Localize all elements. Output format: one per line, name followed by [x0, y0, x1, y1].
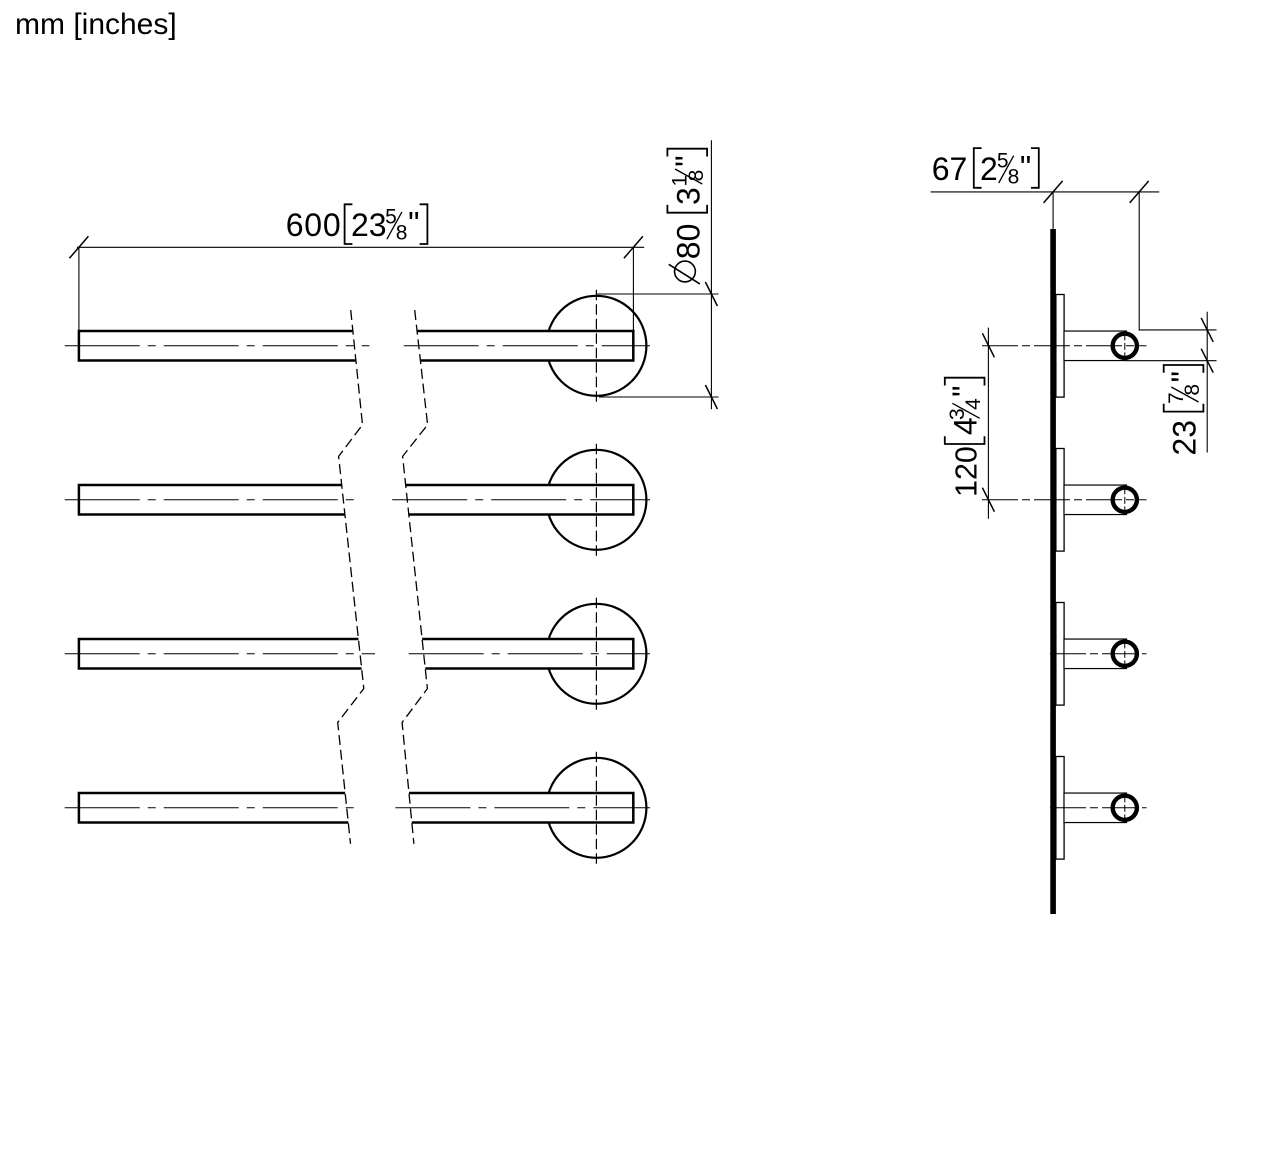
- rosette circle 4 (front view, diameter 80): [546, 758, 646, 858]
- peg 2 (side view): [1064, 485, 1127, 515]
- svg-text:8: 8: [1008, 166, 1020, 189]
- towel bar 4 left segment: [79, 793, 348, 823]
- dimension text 600 [23 5/8 in]: [286, 204, 428, 244]
- svg-text:mm [inches]: mm [inches]: [15, 8, 177, 41]
- svg-text:": ": [1165, 371, 1201, 382]
- svg-text:3: 3: [670, 187, 706, 205]
- dimension 600 tick left: [69, 236, 88, 258]
- svg-text:8: 8: [1181, 384, 1204, 396]
- svg-text:": ": [1020, 150, 1031, 186]
- dimension 67 line: [931, 191, 1160, 193]
- rosette plate 1 (side view): [1056, 295, 1064, 398]
- bar cross-section circle 2 (side view): [1113, 488, 1137, 512]
- 67 tick left: [1044, 181, 1063, 203]
- circle 1 vertical centerline (side): [1124, 333, 1126, 358]
- dia80 dimension line: [710, 140, 712, 409]
- dimension 600 tick right: [624, 236, 643, 258]
- towel bar 2 right segment: [406, 485, 634, 515]
- svg-text:600: 600: [286, 207, 342, 243]
- 23 extension line bottom: [1127, 360, 1217, 362]
- svg-text:4: 4: [962, 398, 985, 410]
- bar cross-section circle 1 (side view): [1113, 334, 1137, 358]
- circle 4 vertical centerline (side): [1124, 795, 1126, 820]
- towel bar 1 right segment: [417, 331, 633, 361]
- 67 extension line right: [1138, 192, 1140, 331]
- svg-text:67: 67: [932, 151, 968, 187]
- dimension text 23 [7/8 in] rotated: [1164, 365, 1204, 456]
- dimension text 120 [4 3/4 in] rotated: [945, 378, 985, 497]
- svg-text:23: 23: [1167, 420, 1203, 456]
- dimension 120 line: [987, 328, 989, 519]
- centerline bar 2 left part (dash-dot): [65, 499, 359, 501]
- centerline bar 4 left part (dash-dot): [65, 807, 362, 809]
- rosette plate 2 (side view): [1056, 449, 1064, 552]
- dia80 extension line top: [597, 293, 718, 295]
- rosette plate 3 (side view): [1056, 603, 1064, 706]
- 120 tick top: [982, 333, 994, 357]
- svg-text:120: 120: [950, 446, 984, 497]
- centerline bar 3 left part (dash-dot): [65, 653, 375, 655]
- 23 tick top: [1201, 318, 1213, 342]
- 120 tick bottom: [982, 488, 994, 512]
- svg-text:8: 8: [685, 170, 708, 182]
- svg-text:": ": [946, 385, 982, 396]
- dimension text dia 80 [3 1/8 in] rotated: [667, 149, 707, 284]
- peg 3 (side view): [1064, 639, 1127, 669]
- dimension 600 extension line left: [78, 247, 80, 330]
- wall plate (side view): [1050, 229, 1056, 914]
- rosette circle 3 (front view, diameter 80): [546, 604, 646, 704]
- peg 1 (side view): [1064, 331, 1127, 361]
- centerline bar 4 right part (dash-dot): [395, 807, 650, 809]
- peg 2 centerline: [982, 499, 1147, 501]
- vertical centerline circle 1: [595, 290, 597, 402]
- break line right (dashed zigzag): [402, 310, 428, 844]
- dia80 tick top: [705, 282, 717, 306]
- svg-text:23: 23: [351, 207, 387, 243]
- centerline bar 3 right part (dash-dot): [409, 653, 650, 655]
- 67 tick right: [1130, 181, 1149, 203]
- svg-text:8: 8: [396, 222, 408, 245]
- rosette plate 4 (side view): [1056, 757, 1064, 860]
- dimension 600 extension line right: [632, 247, 634, 330]
- vertical centerline circle 3: [595, 598, 597, 710]
- circle 3 vertical centerline (side): [1124, 641, 1126, 666]
- vertical centerline circle 4: [595, 752, 597, 864]
- bar cross-section circle 3 (side view): [1113, 642, 1137, 666]
- vertical centerline circle 2: [595, 444, 597, 556]
- peg 3 centerline: [1050, 653, 1147, 655]
- dimension 23 line: [1206, 312, 1208, 453]
- 23 tick bottom: [1201, 349, 1213, 373]
- svg-text:": ": [408, 206, 419, 242]
- break line left (dashed zigzag): [338, 310, 364, 844]
- rosette circle 2 (front view, diameter 80): [546, 450, 646, 550]
- rosette circle 1 (front view, diameter 80): [546, 296, 646, 396]
- towel bar 2 left segment: [79, 485, 345, 515]
- towel bar 3 left segment: [79, 639, 362, 669]
- towel bar 1 left segment: [79, 331, 356, 361]
- centerline bar 2 right part (dash-dot): [392, 499, 650, 501]
- 23 extension line top: [1139, 329, 1217, 331]
- centerline bar 1 right part (dash-dot): [404, 345, 650, 347]
- svg-text:": ": [669, 155, 705, 166]
- 67 extension line left (wall): [1052, 192, 1054, 229]
- bar cross-section circle 4 (side view): [1113, 796, 1137, 820]
- circle 2 vertical centerline (side): [1124, 487, 1126, 512]
- towel bar 4 right segment: [409, 793, 633, 823]
- svg-text:80: 80: [670, 224, 706, 260]
- peg 1 centerline: [982, 345, 1147, 347]
- towel bar 3 right segment: [422, 639, 633, 669]
- dimension 600 line: [77, 246, 644, 248]
- svg-text:2: 2: [980, 151, 998, 187]
- dia80 extension line bottom: [599, 396, 719, 398]
- dimension text 67 [2 5/8 in]: [932, 148, 1039, 188]
- dia80 tick bottom: [705, 385, 717, 409]
- peg 4 centerline: [1050, 807, 1147, 809]
- peg 4 (side view): [1064, 793, 1127, 823]
- centerline bar 1 left part (dash-dot): [65, 345, 370, 347]
